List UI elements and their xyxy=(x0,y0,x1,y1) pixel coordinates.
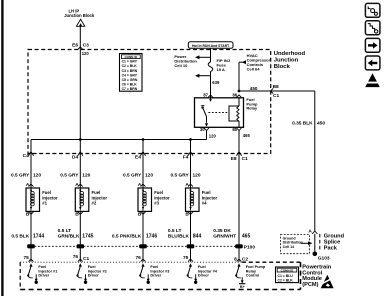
svg-text:15 A: 15 A xyxy=(217,67,225,72)
svg-text:Junction Block: Junction Block xyxy=(64,13,95,18)
CONN ID table PCM xyxy=(276,267,299,283)
wire label 0.5 GRY 120 injector 3 xyxy=(123,172,153,178)
svg-text:#2: #2 xyxy=(92,201,97,206)
connector pass-through blob wire 1745 xyxy=(77,244,85,248)
relay coil xyxy=(229,98,239,128)
PCM pin 76 injector3 xyxy=(135,255,145,262)
relay pin 30 xyxy=(200,127,209,132)
Ground Splice Pack label xyxy=(320,234,345,252)
driver injector 3 xyxy=(139,263,169,284)
wire injector supply bus xyxy=(31,139,207,141)
svg-text:C1: C1 xyxy=(242,156,248,162)
svg-text:450: 450 xyxy=(250,86,258,91)
wire label 0.5 PNK/BLK 1746 xyxy=(112,233,157,239)
wire feed from LH IP junction block xyxy=(79,26,81,139)
svg-text:G103: G103 xyxy=(318,256,330,262)
svg-text:Hot In RUN And START: Hot In RUN And START xyxy=(192,44,230,48)
driver injector 4 xyxy=(187,263,218,284)
svg-text:1746: 1746 xyxy=(146,233,157,239)
fuel injector 1 xyxy=(26,182,58,218)
svg-text:Control: Control xyxy=(246,274,259,278)
svg-text:C1 = GRY: C1 = GRY xyxy=(122,60,138,64)
svg-text:CONN ID: CONN ID xyxy=(124,55,138,59)
connector pass-through blob wire 1746 xyxy=(139,244,147,248)
node E4 crossing xyxy=(135,152,146,161)
svg-text:C4: C4 xyxy=(23,153,29,159)
fuel pump relay box xyxy=(195,98,244,128)
svg-text:1745: 1745 xyxy=(82,233,93,239)
toolbar icon zoom in xyxy=(365,21,380,35)
driver injector 2 xyxy=(76,263,106,284)
svg-text:C1 = BLU: C1 = BLU xyxy=(278,274,294,278)
svg-text:P100: P100 xyxy=(244,245,256,251)
wire from pin 30 xyxy=(206,131,208,140)
svg-text:B8: B8 xyxy=(273,84,279,90)
svg-text:C5 = GRN: C5 = GRN xyxy=(122,78,138,82)
0.35 BLK 450 label xyxy=(292,121,325,127)
svg-text:465: 465 xyxy=(243,133,251,138)
svg-text:Driver: Driver xyxy=(38,274,49,278)
relay switch contact from 87 xyxy=(201,98,212,127)
junction dot bus injector 3 xyxy=(142,138,145,141)
svg-text:C2 = BLK: C2 = BLK xyxy=(122,64,138,68)
svg-text:E8: E8 xyxy=(231,156,237,162)
svg-text:CONN ID: CONN ID xyxy=(281,268,295,272)
relay pin 86 xyxy=(233,92,242,97)
connector pass-through blob wire 844 xyxy=(187,244,195,248)
HVAC compressor controls arrow xyxy=(239,60,246,91)
svg-text:C3: C3 xyxy=(83,43,89,49)
svg-text:120: 120 xyxy=(193,172,201,178)
wire 465 from relay pin 85 xyxy=(238,131,240,262)
svg-text:C2 = BLK: C2 = BLK xyxy=(278,278,294,282)
svg-text:GRN/WHT: GRN/WHT xyxy=(213,233,236,239)
PCM pin 8 C2 relay control xyxy=(234,256,248,262)
svg-text:C7 = BRN: C7 = BRN xyxy=(122,87,138,91)
svg-text:75: 75 xyxy=(23,255,29,261)
svg-text:C6 = BLK: C6 = BLK xyxy=(122,83,138,87)
fuel injector 3 xyxy=(138,182,170,218)
svg-text:0.35 DK: 0.35 DK xyxy=(213,228,231,234)
fuel injector 2 xyxy=(75,182,107,218)
node E6/C3 crossing xyxy=(72,43,89,50)
svg-text:A: A xyxy=(308,228,312,234)
node LH IP junction block label xyxy=(64,8,95,18)
svg-text:F4: F4 xyxy=(183,155,189,161)
svg-text:76: 76 xyxy=(135,255,141,261)
ground G103 splice dot xyxy=(313,252,318,257)
svg-text:0.5 GRY: 0.5 GRY xyxy=(123,172,142,178)
fuel injector 4 xyxy=(185,182,217,218)
power distribution arrow lower xyxy=(195,74,211,78)
fuse F/P INJ xyxy=(208,62,213,72)
junction xyxy=(238,90,241,93)
junction dot bus injector 2 xyxy=(79,138,82,141)
relay actuating dashed link xyxy=(209,112,230,114)
HVAC label xyxy=(247,53,271,71)
junction dot bus injector 4 xyxy=(189,138,192,141)
toolbar icon warning triangle xyxy=(365,73,380,87)
svg-text:120: 120 xyxy=(145,172,153,178)
power distribution arrow upper xyxy=(195,55,211,59)
svg-text:Cell 14: Cell 14 xyxy=(283,245,295,249)
node A pin at ground splice xyxy=(308,228,317,234)
PCM dashed box borders xyxy=(20,261,242,263)
wire label 0.5 LT GRN/BLK 1745 xyxy=(58,228,94,239)
PCM pin 76 C1 injector2 xyxy=(73,254,90,262)
wire label 0.5 GRY 120 injector 2 xyxy=(60,172,90,178)
svg-text:E6: E6 xyxy=(72,43,78,49)
node C4 crossing xyxy=(23,152,34,160)
wire label 0.35 DK GRN/WHT 465 xyxy=(213,228,250,239)
svg-text:C1: C1 xyxy=(273,93,279,99)
svg-text:Relay: Relay xyxy=(246,106,257,111)
svg-text:120: 120 xyxy=(209,133,217,138)
off-page triangle connector A xyxy=(76,19,84,26)
toolbar icon zoom out xyxy=(365,3,380,17)
svg-text:Junction: Junction xyxy=(274,57,299,63)
svg-text:0.5 PNK/BLK: 0.5 PNK/BLK xyxy=(112,233,142,239)
Powertrain Control Module label xyxy=(302,265,331,288)
svg-text:120: 120 xyxy=(82,51,90,56)
svg-text:120: 120 xyxy=(82,172,90,178)
wire injector 3 column xyxy=(142,140,144,262)
svg-text:BLU/BLK: BLU/BLK xyxy=(168,233,190,239)
svg-text:C4 = GRY: C4 = GRY xyxy=(122,73,138,77)
svg-text:87: 87 xyxy=(203,92,208,97)
node B8/C1 crossing xyxy=(271,84,280,99)
driver injector 1 xyxy=(27,263,57,284)
Ground Distribution Cell 14 reference box xyxy=(281,235,313,254)
svg-text:Cell 64: Cell 64 xyxy=(247,67,261,72)
Hot In RUN And START box xyxy=(188,42,233,49)
wire injector 4 column xyxy=(190,140,192,262)
svg-text:Driver: Driver xyxy=(88,274,99,278)
toolbar icon arrow right xyxy=(365,38,380,52)
connector pass-through blob wire 1744 xyxy=(27,244,35,248)
svg-text:465: 465 xyxy=(242,233,251,239)
toolbar icon arrow left xyxy=(365,56,380,70)
svg-text:450: 450 xyxy=(317,121,325,127)
connector pass-through blob P100 on wire 465 xyxy=(235,244,243,248)
svg-text:Driver: Driver xyxy=(198,274,209,278)
svg-text:Cell 10: Cell 10 xyxy=(174,63,188,68)
svg-text:0.35 BLK: 0.35 BLK xyxy=(292,121,313,127)
svg-text:Ground: Ground xyxy=(324,234,345,240)
svg-text:639: 639 xyxy=(212,80,220,85)
svg-text:120: 120 xyxy=(33,172,41,178)
wire 450 vertical xyxy=(314,91,316,231)
svg-text:#4: #4 xyxy=(202,201,207,206)
Underhood Junction Block dashed border xyxy=(28,50,271,154)
ESD warning symbol PCM xyxy=(319,275,333,289)
wire fuse feed xyxy=(210,48,212,62)
node F4 crossing xyxy=(183,152,193,161)
svg-text:GRN/BLK: GRN/BLK xyxy=(58,233,80,239)
svg-text:844: 844 xyxy=(193,233,202,239)
wire injector 2 column xyxy=(79,140,81,262)
connector P100 dashed tie line xyxy=(31,245,239,247)
node E8/C1 crossing xyxy=(231,152,248,162)
svg-text:B+: B+ xyxy=(240,285,245,289)
svg-text:0.5 GRY: 0.5 GRY xyxy=(60,172,79,178)
svg-text:0.5 GRY: 0.5 GRY xyxy=(11,172,30,178)
wire label 0.5 GRY 120 injector 1 xyxy=(11,172,41,178)
svg-text:1744: 1744 xyxy=(33,233,44,239)
relay label xyxy=(246,97,258,111)
svg-text:(PCM): (PCM) xyxy=(302,282,318,288)
relay pin 85 xyxy=(232,127,241,132)
svg-text:76: 76 xyxy=(73,254,79,260)
CONN ID table underhood junction block xyxy=(120,54,143,92)
wire to G103 xyxy=(314,234,316,253)
window edge bar xyxy=(1,0,3,296)
PCM pin 75 injector1 xyxy=(23,255,33,262)
Power Distribution Cell 10 label xyxy=(174,54,197,68)
wire label 0.5 LT BLU/BLK 844 xyxy=(168,228,202,239)
svg-text:Driver: Driver xyxy=(150,274,161,278)
PCM pin 75 injector4 xyxy=(183,255,193,262)
svg-text:Block: Block xyxy=(274,64,291,70)
svg-text:85: 85 xyxy=(232,127,237,132)
svg-text:0.5 BLK: 0.5 BLK xyxy=(11,233,29,239)
svg-text:75: 75 xyxy=(183,255,189,261)
svg-text:#1: #1 xyxy=(42,201,47,206)
svg-text:E4: E4 xyxy=(135,155,141,161)
svg-text:0.5 GRY: 0.5 GRY xyxy=(170,172,189,178)
svg-text:D4: D4 xyxy=(72,155,78,161)
wire label 0.5 BLK 1744 xyxy=(11,233,44,239)
wire label 0.5 GRY 120 injector 4 xyxy=(170,172,200,178)
wire 450 horizontal xyxy=(239,90,315,92)
relay pin 87 xyxy=(203,92,213,97)
driver fuel pump relay control xyxy=(235,263,266,289)
svg-text:C3 = BRN: C3 = BRN xyxy=(122,69,138,73)
node D4 crossing xyxy=(72,152,83,161)
svg-text:C1: C1 xyxy=(83,256,89,262)
svg-text:#3: #3 xyxy=(154,201,159,206)
fuse label xyxy=(217,58,231,72)
wire injector 1 column xyxy=(30,140,32,262)
Underhood Junction Block label xyxy=(274,51,306,70)
svg-text:Underhood: Underhood xyxy=(274,51,306,57)
svg-text:0.5 LT: 0.5 LT xyxy=(168,228,182,234)
svg-text:0.5 LT: 0.5 LT xyxy=(58,228,72,234)
svg-text:Pack: Pack xyxy=(324,246,338,252)
